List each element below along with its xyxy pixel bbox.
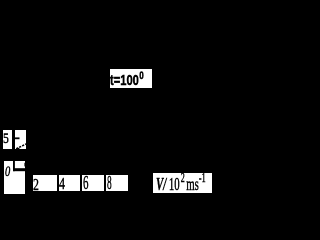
axis unit box [153, 173, 212, 193]
dash of guide line at v=5 [15, 137, 20, 139]
y-axis label 5 box [3, 130, 12, 149]
origin 0 corner blob [4, 161, 26, 194]
label box t=100 [110, 69, 152, 88]
glyph 5 [3, 132, 9, 147]
glyph 4 [59, 176, 65, 193]
axis unit label V/10^2 ms^-1 [156, 175, 206, 193]
glyph 0 italic [5, 165, 10, 180]
glyph 6 [83, 173, 89, 193]
x-axis tick box 2 [33, 175, 57, 191]
x-axis tick box 6 [82, 175, 103, 191]
curve dash at box bottom edge [16, 148, 19, 149]
vertical separator (axis fragment) [13, 161, 15, 171]
horizontal separator (axis fragment) [13, 168, 26, 171]
glyph 2 [33, 177, 39, 194]
x-axis tick box 8 [106, 175, 128, 192]
dashed curve segment crossing box bottom [16, 144, 26, 149]
label text t=100^0 [110, 73, 144, 88]
glyph 8 [107, 173, 112, 193]
curve fragment box right of 5 [15, 130, 26, 149]
x-axis tick box 4 [59, 175, 80, 191]
tick notch at right edge [24, 163, 26, 167]
